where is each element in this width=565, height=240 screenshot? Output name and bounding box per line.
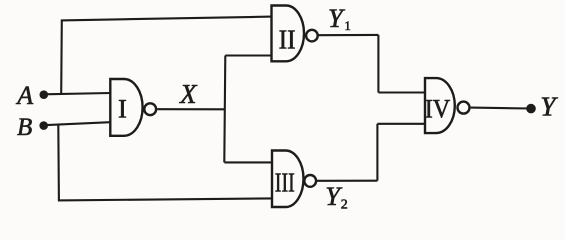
wire node X from gate I output <box>157 108 225 110</box>
svg-text:I: I <box>118 94 127 124</box>
input terminal A (junction dot) <box>40 90 49 99</box>
wire gate IV output to terminal Y <box>471 107 531 110</box>
svg-text:IV: IV <box>425 93 451 123</box>
gate II inversion bubble <box>306 30 318 42</box>
svg-text:1: 1 <box>345 19 351 33</box>
wire Y1 vertical down <box>377 35 379 93</box>
wire X to gate II lower input <box>225 54 272 56</box>
svg-text:Y: Y <box>328 3 346 33</box>
svg-text:B: B <box>17 114 32 141</box>
wire Y2 vertical up <box>376 124 378 181</box>
wire top run from node A to gate II upper input <box>61 17 273 21</box>
wire bottom run from node B to gate III lower input <box>58 198 273 200</box>
gate I inversion bubble <box>144 103 156 115</box>
wire Y1 to gate IV upper input <box>378 91 426 93</box>
NAND gate IV <box>425 78 470 133</box>
wire gate III output Y2 <box>316 180 377 182</box>
svg-text:II: II <box>279 23 296 54</box>
gate III inversion bubble <box>304 175 316 187</box>
NAND gate II <box>272 6 318 62</box>
gate I body <box>110 79 142 136</box>
wire vertical riser from node A <box>60 20 63 93</box>
svg-text:Y: Y <box>540 91 558 122</box>
svg-text:2: 2 <box>341 198 348 213</box>
wire gate II output Y1 <box>318 34 379 36</box>
svg-text:III: III <box>275 166 295 197</box>
wire A to gate I upper input <box>44 93 111 94</box>
wire X to gate III upper input <box>224 161 273 163</box>
svg-text:X: X <box>179 79 198 109</box>
wire X vertical between gate II and gate III inputs <box>224 56 225 163</box>
gate IV body <box>425 78 455 133</box>
NAND gate I <box>110 79 156 136</box>
gate II body <box>272 6 305 62</box>
wire vertical dropper from node B <box>57 124 60 200</box>
svg-text:A: A <box>15 81 33 110</box>
wire B to gate I lower input <box>44 122 111 125</box>
gate IV inversion bubble <box>458 102 470 114</box>
input terminal B (junction dot) <box>39 121 48 130</box>
NAND gate III <box>272 151 316 208</box>
gate III body <box>272 151 304 208</box>
wire Y2 to gate IV lower input <box>377 123 426 125</box>
output terminal Y (dot) <box>526 104 536 114</box>
